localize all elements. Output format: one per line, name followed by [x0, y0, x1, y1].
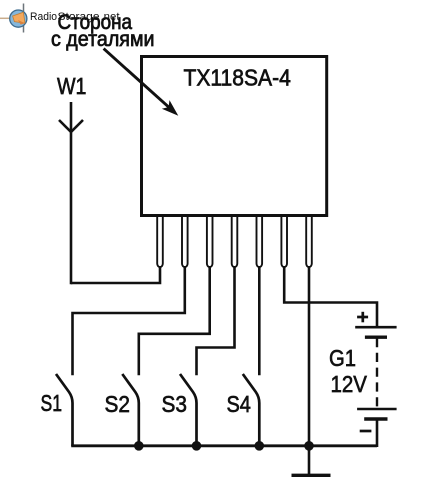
battery plus sign — [357, 312, 368, 323]
svg-text:G1: G1 — [329, 345, 356, 371]
switch S1 — [56, 374, 73, 446]
switch S2 — [122, 374, 139, 446]
svg-text:S2: S2 — [105, 391, 131, 417]
svg-text:W1: W1 — [57, 73, 87, 99]
watermark logo icon — [0, 4, 27, 33]
ground bus wire — [71, 444, 377, 447]
ground — [292, 474, 331, 477]
wire pin3 to S2 — [139, 266, 210, 375]
pin 2 — [182, 216, 188, 267]
switch S3 — [180, 374, 197, 446]
wire pin6 to battery plus — [284, 266, 377, 327]
module U1 TX118SA-4 — [142, 57, 327, 216]
junction node ground-bus — [304, 441, 314, 451]
switch S4 — [243, 374, 259, 446]
svg-text:Radio: Radio — [30, 11, 57, 23]
svg-text:S4: S4 — [227, 391, 252, 417]
wire pin5 to S4 — [258, 266, 261, 375]
annotation arrow — [104, 49, 179, 116]
antenna W1 — [59, 102, 83, 284]
wire pin7 to ground bus — [308, 266, 311, 475]
wire pin4 to S3 — [197, 266, 235, 375]
battery G1 — [355, 327, 396, 447]
junction node S2-bus — [134, 441, 144, 451]
svg-text:12V: 12V — [331, 371, 368, 397]
pin 1 — [157, 216, 163, 267]
pin 7 — [306, 216, 312, 267]
battery minus sign — [360, 430, 372, 433]
pin 4 — [232, 216, 238, 267]
pin 3 — [207, 216, 213, 267]
svg-text:TX118SA-4: TX118SA-4 — [184, 65, 291, 91]
svg-text:S3: S3 — [162, 391, 188, 417]
svg-text:с деталями: с деталями — [51, 27, 155, 51]
junction node S4-bus — [254, 441, 264, 451]
pin 5 — [257, 216, 263, 267]
svg-text:S1: S1 — [41, 390, 63, 416]
pin 6 — [281, 216, 287, 267]
junction node S3-bus — [192, 441, 202, 451]
wire pin2 to S1 — [73, 266, 185, 375]
wire antenna to pin1 — [71, 266, 160, 283]
